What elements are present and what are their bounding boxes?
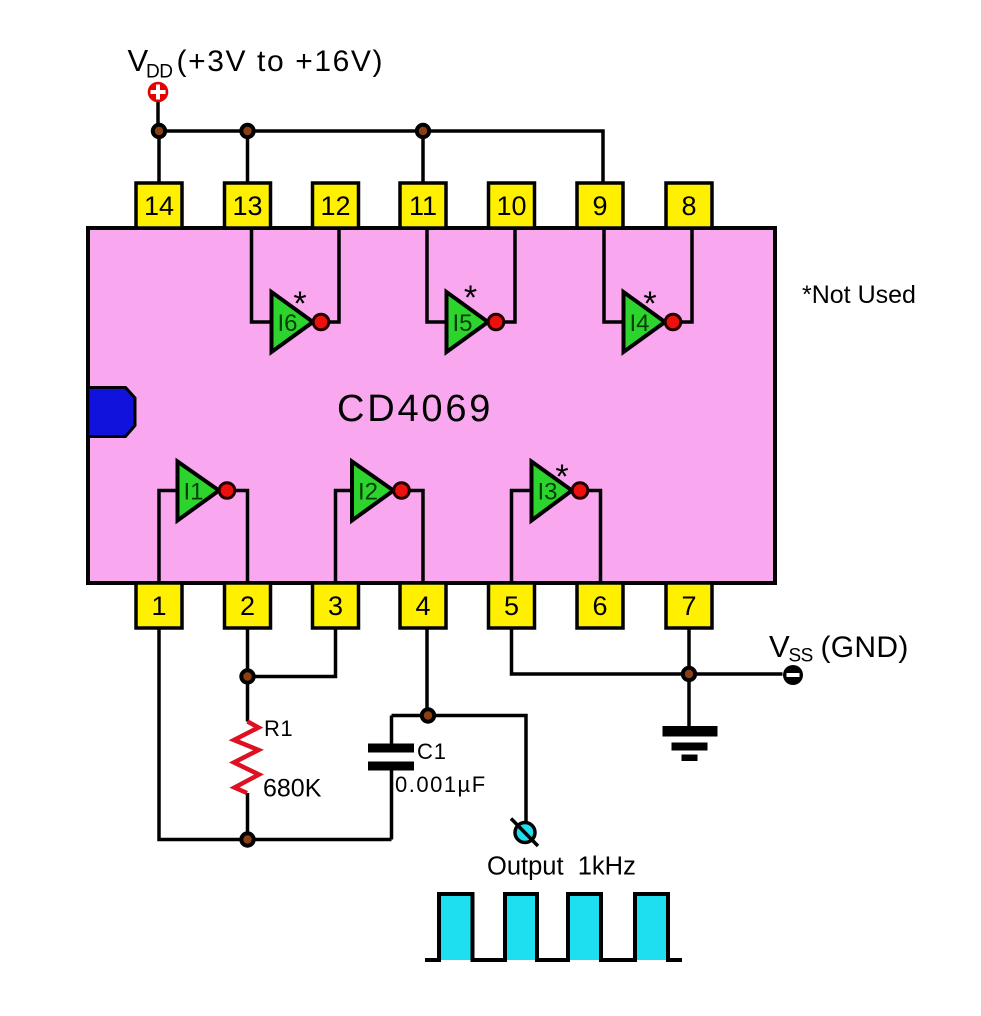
svg-text:13: 13 (232, 191, 262, 221)
svg-text:V: V (769, 629, 790, 664)
svg-text:6: 6 (592, 591, 607, 621)
svg-text:11: 11 (409, 191, 437, 221)
svg-text:2: 2 (240, 591, 255, 621)
svg-text:0.001µF: 0.001µF (395, 772, 487, 797)
svg-text:1: 1 (151, 591, 166, 621)
svg-text:14: 14 (144, 191, 174, 221)
svg-text:(+3V to +16V): (+3V to +16V) (177, 45, 385, 78)
svg-text:5: 5 (504, 591, 519, 621)
svg-text:680K: 680K (263, 775, 322, 803)
svg-text:3: 3 (328, 591, 343, 621)
svg-text:DD: DD (146, 62, 172, 83)
svg-text:9: 9 (592, 191, 607, 221)
svg-text:(GND): (GND) (821, 631, 909, 664)
svg-text:SS: SS (789, 646, 813, 667)
svg-text:C1: C1 (417, 739, 447, 764)
svg-text:*: * (464, 279, 477, 317)
svg-text:10: 10 (496, 191, 526, 221)
svg-text:Output 1kHz: Output 1kHz (487, 853, 636, 881)
svg-text:*: * (643, 285, 656, 323)
svg-text:*: * (555, 458, 568, 496)
svg-text:*: * (293, 285, 306, 323)
svg-text:CD4069: CD4069 (337, 388, 493, 430)
svg-text:I2: I2 (358, 479, 378, 506)
svg-text:I1: I1 (184, 479, 204, 506)
svg-text:8: 8 (681, 191, 696, 221)
svg-text:7: 7 (681, 591, 696, 621)
svg-text:R1: R1 (264, 716, 293, 741)
svg-text:4: 4 (415, 591, 430, 621)
svg-text:12: 12 (320, 191, 350, 221)
svg-text:*Not Used: *Not Used (802, 281, 916, 309)
